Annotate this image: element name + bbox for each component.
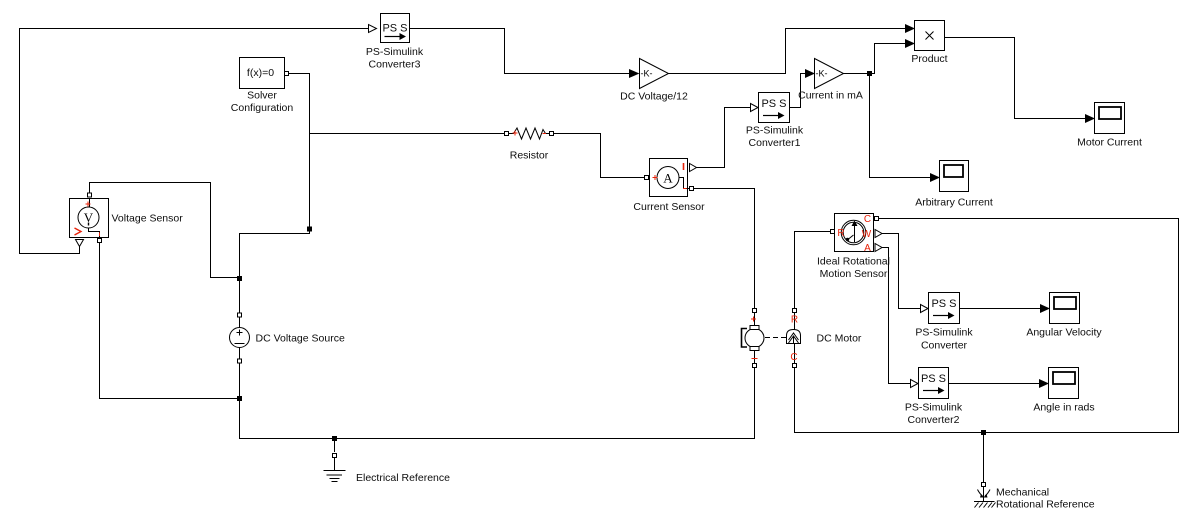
svg-text:Motor Current: Motor Current (1077, 137, 1142, 149)
svg-text:PS S: PS S (761, 98, 786, 110)
svg-text:R: R (791, 315, 798, 326)
svg-text:Motion Sensor: Motion Sensor (820, 268, 888, 280)
svg-text:f(x)=0: f(x)=0 (247, 67, 274, 79)
svg-text:PS-Simulink: PS-Simulink (915, 327, 973, 339)
svg-text:PS-Simulink: PS-Simulink (366, 46, 424, 58)
svg-text:Mechanical: Mechanical (996, 487, 1049, 499)
svg-text:Angular Velocity: Angular Velocity (1026, 327, 1102, 339)
svg-text:Converter3: Converter3 (369, 59, 421, 71)
svg-text:Resistor: Resistor (510, 150, 549, 162)
svg-text:Voltage Sensor: Voltage Sensor (112, 213, 184, 225)
svg-text:Product: Product (911, 53, 947, 65)
svg-text:-K-: -K- (641, 69, 653, 79)
svg-text:PS-Simulink: PS-Simulink (746, 125, 804, 137)
svg-text:DC Voltage/12: DC Voltage/12 (620, 91, 688, 103)
svg-text:PS S: PS S (931, 298, 956, 310)
svg-text:PS S: PS S (921, 373, 946, 385)
svg-text:PS S: PS S (382, 23, 407, 35)
svg-text:Current in mA: Current in mA (798, 90, 863, 102)
svg-text:W: W (862, 229, 872, 240)
svg-text:C: C (790, 352, 797, 363)
svg-text:Current Sensor: Current Sensor (633, 201, 705, 213)
svg-text:A: A (864, 243, 871, 254)
svg-text:Rotational Reference: Rotational Reference (996, 499, 1095, 511)
svg-text:Electrical Reference: Electrical Reference (356, 472, 450, 484)
svg-text:C: C (864, 214, 871, 225)
svg-text:Converter1: Converter1 (749, 137, 801, 149)
svg-text:PS-Simulink: PS-Simulink (905, 402, 963, 414)
svg-text:Solver: Solver (247, 90, 277, 102)
svg-text:Converter2: Converter2 (908, 414, 960, 426)
svg-text:DC Voltage Source: DC Voltage Source (256, 333, 345, 345)
svg-text:Ideal Rotational: Ideal Rotational (817, 256, 890, 268)
svg-text:A: A (663, 171, 673, 186)
svg-text:Converter: Converter (921, 340, 968, 352)
svg-text:-K-: -K- (816, 69, 828, 79)
svg-text:Configuration: Configuration (231, 102, 294, 114)
svg-text:DC Motor: DC Motor (817, 333, 862, 345)
svg-text:Angle in rads: Angle in rads (1033, 402, 1094, 414)
svg-text:R: R (837, 228, 844, 239)
svg-text:Arbitrary Current: Arbitrary Current (915, 197, 993, 209)
